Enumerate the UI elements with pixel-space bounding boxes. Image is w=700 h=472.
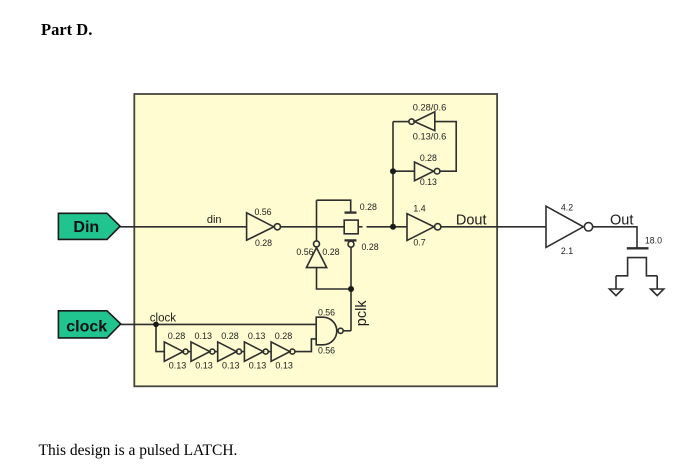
svg-text:0.28: 0.28 (420, 153, 437, 163)
svg-text:0.13: 0.13 (195, 360, 213, 370)
svg-text:Dout: Dout (456, 213, 487, 229)
svg-text:0.13: 0.13 (195, 331, 213, 341)
svg-text:0.56: 0.56 (254, 207, 271, 217)
svg-text:0.28: 0.28 (362, 242, 379, 252)
svg-text:0.28: 0.28 (168, 331, 186, 341)
svg-text:din: din (207, 214, 222, 226)
svg-text:0.28: 0.28 (255, 238, 272, 248)
svg-text:clock: clock (150, 312, 176, 324)
svg-text:0.56: 0.56 (318, 308, 335, 318)
svg-text:0.13: 0.13 (249, 360, 267, 370)
svg-text:Out: Out (610, 213, 633, 229)
svg-text:0.56: 0.56 (318, 345, 335, 355)
svg-text:0.28: 0.28 (221, 331, 239, 341)
svg-text:0.28: 0.28 (322, 247, 339, 257)
svg-text:18.0: 18.0 (645, 236, 662, 246)
svg-text:0.28/0.6: 0.28/0.6 (413, 103, 447, 113)
svg-text:0.7: 0.7 (413, 238, 425, 248)
svg-text:pclk: pclk (354, 300, 370, 327)
svg-text:0.56: 0.56 (296, 247, 313, 257)
svg-text:Din: Din (73, 219, 99, 236)
svg-text:4.2: 4.2 (561, 202, 573, 212)
svg-text:0.13: 0.13 (248, 331, 266, 341)
svg-text:1.4: 1.4 (413, 203, 425, 213)
svg-text:0.28: 0.28 (275, 331, 293, 341)
svg-text:0.13: 0.13 (222, 360, 240, 370)
svg-text:0.13: 0.13 (169, 360, 187, 370)
svg-text:0.13: 0.13 (275, 360, 293, 370)
svg-text:0.13: 0.13 (420, 177, 437, 187)
svg-text:2.1: 2.1 (561, 246, 573, 256)
svg-text:0.13/0.6: 0.13/0.6 (413, 131, 447, 141)
svg-text:clock: clock (66, 318, 107, 335)
svg-text:0.28: 0.28 (360, 202, 377, 212)
